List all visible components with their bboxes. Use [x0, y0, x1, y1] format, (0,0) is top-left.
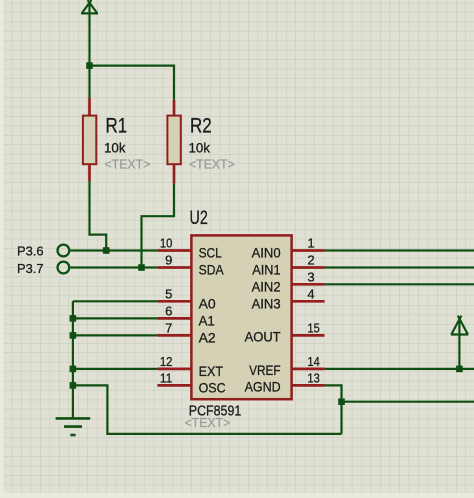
svg-text:P3.7: P3.7: [17, 261, 44, 276]
pin 4 AIN3 stub: [292, 300, 325, 303]
pin 6 A1 stub: [157, 317, 191, 320]
svg-text:AGND: AGND: [245, 378, 281, 394]
junction AGND net: [338, 398, 345, 405]
junction R1/SCL: [103, 247, 110, 254]
svg-text:AOUT: AOUT: [245, 328, 281, 344]
wire address/ground bus vertical: [72, 301, 74, 417]
svg-text:A0: A0: [199, 295, 216, 311]
wire AGND net to right edge: [342, 401, 474, 403]
wire VCC vertical to junction and down to R1: [88, 3, 90, 98]
svg-text:AIN3: AIN3: [252, 295, 281, 311]
pin 2 AIN1 stub: [292, 266, 325, 269]
resistor R1 pin bottom: [88, 164, 91, 181]
svg-text:9: 9: [165, 253, 172, 268]
svg-text:13: 13: [307, 370, 319, 385]
pin 7 A2 stub: [157, 334, 191, 337]
power terminal VREF arrow: [451, 316, 468, 335]
svg-text:R1: R1: [106, 115, 128, 138]
svg-text:SDA: SDA: [199, 262, 225, 278]
svg-text:14: 14: [307, 354, 319, 369]
svg-text:P3.6: P3.6: [17, 244, 44, 259]
wire A2 from bus: [73, 334, 157, 336]
svg-text:1: 1: [307, 236, 314, 251]
svg-text:U2: U2: [190, 208, 208, 229]
svg-text:3: 3: [307, 269, 314, 284]
wire junction to R2 top: [90, 66, 175, 100]
svg-text:A1: A1: [199, 312, 215, 328]
svg-text:7: 7: [165, 320, 172, 335]
resistor R1 pin top: [88, 98, 91, 116]
sheet edge light strips: [0, 0, 4, 498]
wire R1 bottom to SCL net: [90, 181, 107, 251]
junction VREF/power: [456, 366, 463, 373]
terminal P3.6: [58, 245, 70, 257]
svg-text:2: 2: [307, 253, 314, 268]
svg-text:15: 15: [307, 320, 319, 335]
svg-text:OSC: OSC: [199, 379, 226, 395]
svg-text:AIN1: AIN1: [252, 262, 281, 278]
svg-text:AIN0: AIN0: [252, 245, 281, 261]
wire VREF: [325, 368, 474, 370]
resistor R2 pin top: [173, 100, 176, 116]
svg-text:EXT: EXT: [199, 363, 224, 379]
resistor R1 body: [83, 116, 96, 165]
junction bus/A1: [70, 315, 77, 322]
junction at VCC split: [86, 62, 93, 69]
svg-text:<TEXT>: <TEXT>: [189, 157, 235, 172]
pin 10 SCL stub: [157, 249, 191, 252]
svg-text:10k: 10k: [104, 139, 126, 155]
ground symbol: [56, 418, 91, 435]
junction R2/SDA: [138, 264, 145, 271]
pin 15 AOUT stub: [292, 334, 325, 337]
svg-text:5: 5: [165, 286, 172, 301]
pin 5 A0 stub: [157, 300, 191, 303]
svg-text:VREF: VREF: [249, 362, 281, 378]
svg-text:SCL: SCL: [199, 245, 222, 261]
terminal P3.7: [58, 262, 70, 274]
svg-text:A2: A2: [199, 329, 216, 345]
pin 12 EXT stub: [157, 368, 191, 371]
pin 3 AIN2 stub: [292, 283, 325, 286]
wire AIN1: [325, 266, 474, 268]
junction bus/A2: [70, 332, 77, 339]
pin 13 AGND stub: [292, 384, 325, 387]
pin 9 SDA stub: [157, 266, 191, 269]
junction bus/bottom return: [70, 382, 77, 389]
wire AIN0: [325, 249, 474, 251]
junction bus/EXT: [70, 366, 77, 373]
pin 1 AIN0 stub: [292, 249, 325, 252]
wire VREF power vertical: [458, 318, 460, 369]
svg-text:6: 6: [165, 303, 172, 318]
svg-text:12: 12: [160, 354, 172, 369]
wire SDA net: [70, 266, 157, 268]
pin 11 OSC stub: [157, 384, 191, 387]
wire AGND to bottom return: [325, 385, 342, 434]
pin 14 VREF stub: [292, 368, 325, 371]
svg-text:11: 11: [160, 370, 172, 385]
svg-text:AIN2: AIN2: [252, 278, 281, 294]
IC U2 body: [191, 235, 291, 399]
svg-text:4: 4: [307, 286, 314, 301]
wire SCL net: [70, 249, 157, 251]
svg-text:10k: 10k: [189, 139, 211, 155]
wire A1 from bus: [73, 317, 157, 319]
power terminal VCC top: [81, 0, 98, 13]
wire bus to bottom return: [73, 385, 342, 434]
svg-text:<TEXT>: <TEXT>: [185, 415, 231, 430]
resistor R2 body: [167, 116, 180, 165]
svg-text:R2: R2: [190, 115, 212, 138]
wire AIN2: [325, 283, 474, 285]
wire R2 bottom to SDA net: [142, 184, 175, 268]
svg-text:10: 10: [160, 236, 172, 251]
svg-text:<TEXT>: <TEXT>: [105, 157, 151, 172]
wire A0 from bus: [73, 300, 157, 302]
resistor R2 pin bottom: [173, 164, 176, 184]
wire EXT from bus: [73, 368, 157, 370]
